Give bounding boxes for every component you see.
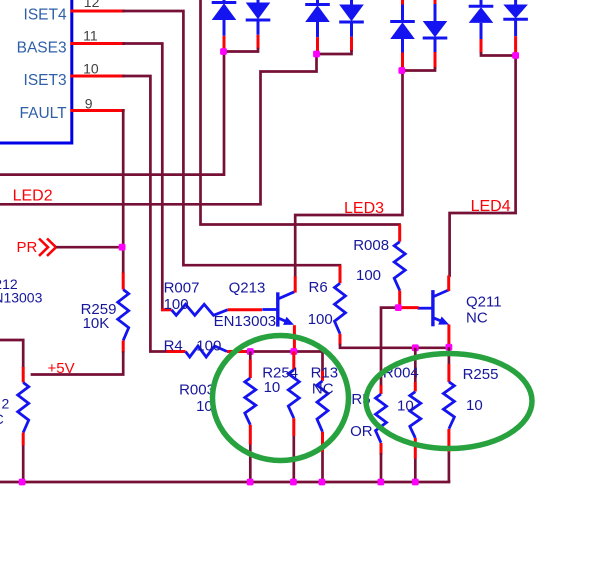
diode D5 anode stub — [401, 53, 404, 69]
svg-text:R003: R003 — [179, 381, 215, 398]
resistor R13 — [317, 371, 328, 482]
junction bus/R13 — [319, 479, 326, 486]
label R259 — [81, 301, 117, 318]
resistor R5 — [376, 385, 387, 482]
wire R6 bottom to right rail — [340, 345, 449, 348]
pin number 9 — [85, 95, 93, 111]
svg-text:10K: 10K — [83, 315, 110, 332]
svg-text:9: 9 — [85, 95, 93, 111]
svg-text:2: 2 — [2, 396, 10, 412]
svg-text:10: 10 — [466, 397, 483, 414]
svg-text:Q213: Q213 — [229, 280, 266, 297]
wire ISET3 pin10 down to R4 — [124, 76, 167, 352]
junction PR/FAULT — [119, 244, 126, 251]
wire Q211 base net to R5 — [381, 308, 398, 385]
value NC of R13 — [312, 381, 334, 398]
junction rail/R004 — [412, 344, 419, 351]
value OR of R5 — [350, 423, 373, 440]
wire PR to FAULT net — [58, 246, 123, 249]
diode D7 (pair4 left, up) — [469, 0, 494, 39]
label R004 — [383, 365, 419, 382]
value 10 of R004 — [397, 397, 414, 414]
transistor Q213 — [262, 292, 294, 327]
diode D5 top stub — [401, 0, 404, 5]
value 100 of R007 — [164, 296, 189, 313]
wire Q213 collector stub — [294, 276, 297, 292]
junction bus/R254 — [290, 479, 297, 486]
pin 10 stub — [72, 75, 124, 78]
value 10 of R003 — [196, 398, 213, 415]
label R254 — [262, 365, 298, 382]
wire ISET4 pin12 to R6 top rail — [124, 11, 341, 265]
junction rail/R254/Q213 emitter — [290, 348, 297, 355]
svg-text:BASE3: BASE3 — [17, 39, 67, 56]
wire Q211 base stub — [398, 306, 418, 309]
svg-text:10: 10 — [264, 379, 281, 396]
diode D6 cathode stub — [434, 52, 437, 69]
svg-text:100: 100 — [164, 296, 189, 313]
svg-text:C: C — [0, 411, 4, 427]
value 10 of R255 — [466, 397, 483, 414]
resistor R255 — [443, 347, 454, 482]
junction bus/left resistor — [19, 479, 26, 486]
wire BASE3 pin11 down to R007 — [124, 44, 163, 310]
label EN13003 — [214, 313, 277, 330]
label R13 — [311, 365, 339, 382]
value 100 of R6 — [308, 311, 333, 328]
diode D4 cathode stub — [350, 37, 353, 52]
net label LED4 — [471, 198, 511, 215]
resistor R008 — [394, 225, 405, 308]
resistor R254 — [288, 352, 299, 483]
diode D3 (pair2 left, up) — [305, 0, 330, 37]
svg-text:R4: R4 — [164, 337, 183, 354]
svg-text:11: 11 — [83, 28, 98, 44]
pin 11 stub — [72, 42, 124, 45]
wire pair2 bend to junction — [317, 52, 352, 55]
pin name ISET4 — [24, 7, 67, 24]
svg-text:R008: R008 — [353, 237, 389, 254]
pin name FAULT — [20, 105, 68, 122]
wire left branch from edge down to bus — [0, 340, 23, 367]
wire Q211 emitter stub — [447, 325, 450, 348]
annotation green ellipse 1 — [213, 336, 349, 461]
svg-text:100: 100 — [356, 267, 381, 284]
junction rail/R003 — [247, 348, 254, 355]
junction pair3 — [398, 67, 405, 74]
resistor R6 — [335, 265, 346, 345]
svg-text:R007: R007 — [164, 280, 200, 297]
wire pair1 bend to junction — [224, 49, 258, 52]
svg-text:NC: NC — [312, 381, 334, 398]
diode D2 cathode stub — [257, 35, 260, 49]
label R008 — [353, 237, 389, 254]
value 100 of R4 — [196, 337, 221, 354]
svg-text:ISET4: ISET4 — [24, 7, 67, 24]
resistor R004 — [410, 348, 421, 482]
diode D1 (pair1 left, up) — [212, 0, 237, 36]
diode D6 top stub — [434, 0, 437, 4]
diode D8 cathode stub — [514, 36, 517, 53]
diode D1 anode stub — [223, 36, 226, 50]
label R003 — [179, 381, 215, 398]
svg-text:EN13003: EN13003 — [214, 313, 277, 330]
diode D8 (pair4 right, down) — [503, 0, 528, 36]
value 10 of R254 — [264, 379, 281, 396]
svg-text:LED4: LED4 — [471, 198, 511, 215]
diode D3 anode stub — [316, 37, 319, 52]
net label LED2 — [13, 188, 53, 205]
value 10K — [83, 315, 110, 332]
wire Q213 emitter stub to rail — [293, 325, 296, 351]
svg-text:LED3: LED3 — [344, 200, 384, 217]
wire pair1 net down and left (LED1 net) — [0, 52, 224, 175]
svg-text:EN13003: EN13003 — [0, 290, 43, 306]
svg-text:R6: R6 — [309, 279, 328, 296]
svg-text:PR: PR — [17, 239, 38, 256]
svg-text:NC: NC — [466, 310, 488, 327]
junction bus/R004 — [412, 479, 419, 486]
label Q211 — [466, 294, 502, 311]
svg-text:10: 10 — [397, 397, 414, 414]
PR input port symbol — [17, 239, 57, 257]
label fragment EN13003 — [0, 290, 43, 306]
diode D6 (pair3 right, down) — [423, 4, 448, 52]
pin number 11 — [83, 28, 98, 44]
wire pair4 bend to junction — [481, 53, 516, 55]
svg-text:100: 100 — [196, 337, 221, 354]
label R5 — [351, 391, 370, 408]
junction pair2 — [313, 51, 320, 58]
ground bus wire — [0, 481, 449, 484]
wire pair3 bend to junction — [403, 69, 436, 71]
diode D2 (pair1 right, down) — [246, 0, 271, 35]
diode D5 (pair3 left, up) — [390, 5, 415, 53]
net label +5V — [48, 360, 75, 377]
pin name ISET3 — [24, 72, 67, 89]
junction pair1 — [220, 48, 227, 55]
svg-text:12: 12 — [84, 0, 100, 10]
wire pair2 net to LED2 line — [0, 54, 317, 204]
resistor R259 — [118, 273, 129, 353]
transistor Q211 — [417, 290, 449, 327]
label R007 — [164, 280, 200, 297]
wire long vertical to R008 top — [201, 0, 400, 225]
svg-text:R13: R13 — [311, 365, 339, 382]
wire left rail R4 to R13 — [248, 352, 323, 372]
svg-text:10: 10 — [83, 61, 99, 77]
IC U2 body edge (partial, top-left) — [0, 0, 72, 143]
pin 9 stub — [72, 109, 123, 112]
svg-text:OR: OR — [350, 423, 373, 440]
pin number 10 — [83, 61, 99, 77]
value 100 of R008 — [356, 267, 381, 284]
resistor R(partial) left edge — [18, 367, 29, 482]
label R6 — [309, 279, 328, 296]
svg-text:LED2: LED2 — [13, 188, 53, 205]
wire FAULT pin9 down through PR junction to R259 — [122, 111, 125, 273]
resistor R4 — [167, 346, 248, 357]
annotation green ellipse 2 — [366, 354, 532, 449]
label R255 — [463, 366, 499, 383]
svg-text:Q211: Q211 — [466, 294, 502, 311]
label fragment C — [0, 411, 4, 427]
junction bus/R5 — [377, 479, 384, 486]
svg-text:100: 100 — [308, 311, 333, 328]
net label LED3 — [344, 200, 384, 217]
diode D7 anode stub — [480, 39, 483, 53]
label R4 — [164, 337, 183, 354]
svg-text:+5V: +5V — [48, 360, 75, 377]
resistor R003 — [245, 352, 256, 483]
junction rail/Q211 emitter/R255 — [446, 344, 453, 351]
svg-text:ISET3: ISET3 — [24, 72, 67, 89]
svg-text:FAULT: FAULT — [20, 105, 68, 122]
label fragment Q212 — [0, 276, 18, 292]
pin number 12 — [84, 0, 100, 10]
diode D4 (pair2 right, down) — [339, 0, 364, 37]
wire R259 bottom to +5V rail — [32, 353, 123, 375]
wire pair4 net down to LED4 line and Q211 collector — [450, 56, 516, 276]
wire Q211 collector stub — [447, 276, 450, 292]
wire pair3 net down to LED3 line — [295, 71, 402, 277]
resistor R007 — [161, 304, 262, 315]
junction R008/Q211 base — [395, 304, 402, 311]
junction bus/R003 — [247, 479, 254, 486]
svg-text:R255: R255 — [463, 366, 499, 383]
label NC of Q211 — [466, 310, 488, 327]
pin 12 stub — [72, 10, 124, 13]
pin name BASE3 — [17, 39, 67, 56]
label Q213 — [229, 280, 266, 297]
junction pair4 — [512, 52, 519, 59]
label fragment 2 — [2, 396, 10, 412]
